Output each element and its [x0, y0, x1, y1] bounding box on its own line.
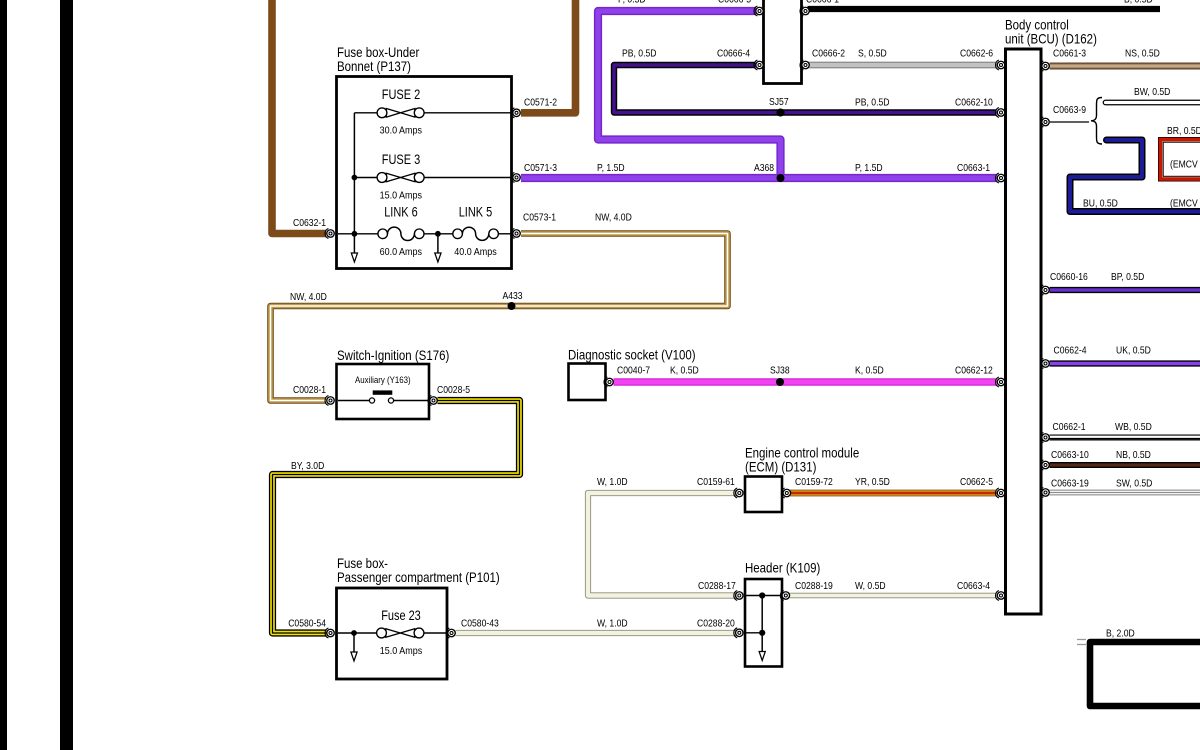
- svg-text:Switch-Ignition (S176): Switch-Ignition (S176): [337, 347, 449, 363]
- svg-text:C0159-61: C0159-61: [697, 476, 735, 488]
- svg-text:C0666-4: C0666-4: [717, 48, 750, 60]
- svg-text:C0663-1: C0663-1: [957, 162, 990, 174]
- svg-text:B, 2.0D: B, 2.0D: [1106, 628, 1135, 640]
- svg-text:C0663-19: C0663-19: [1051, 478, 1089, 490]
- svg-text:40.0 Amps: 40.0 Amps: [454, 247, 496, 258]
- svg-text:Bonnet (P137): Bonnet (P137): [337, 58, 411, 74]
- svg-text:YR, 0.5D: YR, 0.5D: [855, 476, 890, 488]
- svg-text:C0573-1: C0573-1: [523, 212, 556, 224]
- svg-text:Passenger compartment (P101): Passenger compartment (P101): [337, 569, 500, 585]
- svg-text:C0663-9: C0663-9: [1053, 104, 1086, 116]
- svg-text:NW, 4.0D: NW, 4.0D: [595, 212, 632, 224]
- svg-text:BW, 0.5D: BW, 0.5D: [1134, 86, 1171, 98]
- svg-text:BR, 0.5D: BR, 0.5D: [1167, 125, 1200, 137]
- svg-text:C0666-2: C0666-2: [812, 48, 845, 60]
- svg-text:Diagnostic socket (V100): Diagnostic socket (V100): [568, 347, 696, 363]
- svg-text:15.0 Amps: 15.0 Amps: [380, 191, 422, 202]
- svg-text:C0662-10: C0662-10: [955, 97, 993, 109]
- svg-text:C0028-1: C0028-1: [293, 384, 326, 396]
- svg-text:A433: A433: [503, 290, 523, 302]
- svg-text:W, 1.0D: W, 1.0D: [597, 476, 628, 488]
- svg-text:(ECM) (D131): (ECM) (D131): [745, 459, 816, 475]
- svg-text:C0663-10: C0663-10: [1051, 449, 1089, 461]
- svg-text:BP, 0.5D: BP, 0.5D: [1111, 271, 1145, 283]
- svg-text:A368: A368: [754, 162, 774, 174]
- svg-text:C0580-54: C0580-54: [288, 618, 326, 630]
- svg-text:C0662-1: C0662-1: [1053, 421, 1086, 433]
- svg-text:FUSE 3: FUSE 3: [382, 152, 421, 167]
- svg-text:C0288-17: C0288-17: [698, 580, 736, 592]
- svg-text:(EMCV: (EMCV: [1170, 198, 1198, 210]
- svg-text:SJ57: SJ57: [769, 96, 789, 108]
- svg-text:C0288-19: C0288-19: [795, 580, 833, 592]
- svg-text:C0632-1: C0632-1: [293, 217, 326, 229]
- svg-text:C0662-4: C0662-4: [1054, 345, 1087, 357]
- svg-text:C0028-5: C0028-5: [437, 384, 470, 396]
- svg-text:P, 1.5D: P, 1.5D: [855, 162, 883, 174]
- svg-text:C0040-7: C0040-7: [617, 365, 650, 377]
- svg-text:C0288-20: C0288-20: [697, 618, 735, 630]
- svg-text:C0661-3: C0661-3: [1053, 48, 1086, 60]
- svg-text:W, 1.0D: W, 1.0D: [597, 618, 628, 630]
- svg-text:C0580-43: C0580-43: [461, 618, 499, 630]
- svg-text:15.0 Amps: 15.0 Amps: [380, 646, 422, 657]
- svg-text:C0662-6: C0662-6: [960, 48, 993, 60]
- svg-text:P, 0.5D: P, 0.5D: [618, 0, 646, 6]
- svg-text:K, 0.5D: K, 0.5D: [670, 365, 699, 377]
- svg-text:C0662-5: C0662-5: [960, 476, 993, 488]
- svg-text:NW, 4.0D: NW, 4.0D: [290, 291, 327, 303]
- svg-text:BU, 0.5D: BU, 0.5D: [1083, 198, 1118, 210]
- svg-text:WB, 0.5D: WB, 0.5D: [1115, 421, 1152, 433]
- svg-text:PB, 0.5D: PB, 0.5D: [622, 48, 657, 60]
- svg-text:UK, 0.5D: UK, 0.5D: [1116, 345, 1151, 357]
- svg-text:(EMCV: (EMCV: [1170, 159, 1198, 171]
- svg-text:C0571-2: C0571-2: [524, 97, 557, 109]
- svg-text:NB, 0.5D: NB, 0.5D: [1116, 449, 1151, 461]
- svg-text:K, 0.5D: K, 0.5D: [855, 365, 884, 377]
- svg-text:LINK 6: LINK 6: [384, 205, 418, 220]
- svg-text:NS, 0.5D: NS, 0.5D: [1125, 48, 1160, 60]
- svg-text:C0662-12: C0662-12: [955, 365, 993, 377]
- svg-text:FUSE 2: FUSE 2: [382, 87, 420, 102]
- svg-text:C0666-1: C0666-1: [806, 0, 839, 6]
- svg-text:B, 0.5D: B, 0.5D: [1124, 0, 1153, 6]
- svg-text:BY, 3.0D: BY, 3.0D: [291, 460, 325, 472]
- svg-text:C0660-16: C0660-16: [1050, 271, 1088, 283]
- svg-text:unit (BCU) (D162): unit (BCU) (D162): [1005, 31, 1097, 47]
- svg-text:SJ38: SJ38: [770, 365, 790, 377]
- svg-text:Auxiliary (Y163): Auxiliary (Y163): [355, 375, 411, 386]
- svg-text:C0666-5: C0666-5: [718, 0, 751, 6]
- svg-text:Fuse 23: Fuse 23: [381, 608, 421, 623]
- svg-text:C0571-3: C0571-3: [524, 162, 557, 174]
- svg-text:SW, 0.5D: SW, 0.5D: [1116, 478, 1153, 490]
- svg-text:C0159-72: C0159-72: [795, 476, 833, 488]
- svg-text:P, 1.5D: P, 1.5D: [597, 162, 625, 174]
- svg-text:LINK 5: LINK 5: [459, 205, 493, 220]
- svg-text:Header (K109): Header (K109): [745, 560, 820, 576]
- svg-text:S, 0.5D: S, 0.5D: [858, 48, 887, 60]
- svg-text:60.0 Amps: 60.0 Amps: [380, 247, 422, 258]
- svg-text:W, 0.5D: W, 0.5D: [855, 580, 886, 592]
- svg-text:C0663-4: C0663-4: [957, 580, 990, 592]
- svg-text:PB, 0.5D: PB, 0.5D: [855, 97, 890, 109]
- svg-text:30.0 Amps: 30.0 Amps: [380, 126, 422, 137]
